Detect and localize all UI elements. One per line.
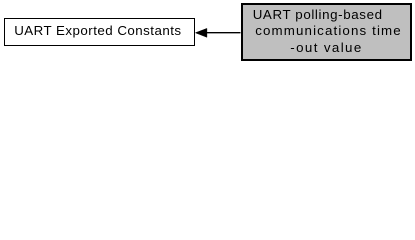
node: UART polling-based communications time-out value (current, grey filled)	[241, 3, 413, 61]
label line 3: -out value	[290, 41, 362, 56]
label line 1: UART polling-based	[253, 8, 383, 23]
label line 2: communications time	[255, 24, 402, 39]
wire	[206, 32, 241, 34]
edge: wire + arrowhead from grey node to left node	[0, 0, 415, 65]
label: UART Exported Constants	[14, 24, 181, 39]
node: UART Exported Constants (group box)	[4, 18, 195, 46]
arrowhead	[195, 28, 207, 37]
